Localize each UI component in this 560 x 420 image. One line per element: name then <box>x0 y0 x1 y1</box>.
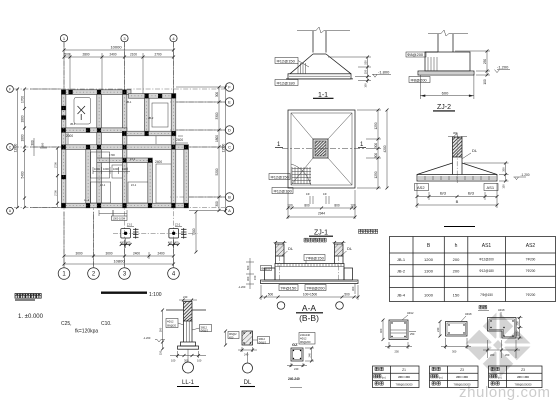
svg-text:7Φ8@200: 7Φ8@200 <box>306 285 325 290</box>
svg-text:1000: 1000 <box>103 167 109 171</box>
svg-text:Z3: Z3 <box>460 368 464 372</box>
grid row F centerline <box>14 88 225 90</box>
svg-text:150: 150 <box>502 184 506 189</box>
svg-text:JB-2: JB-2 <box>397 268 406 273</box>
column hatched stem <box>453 137 463 157</box>
wall strip top-right horizontal <box>129 94 176 99</box>
svg-text:240: 240 <box>307 353 311 358</box>
svg-text:(m): (m) <box>439 375 443 379</box>
svg-text:-1.200: -1.200 <box>521 173 530 177</box>
svg-text:JB-1: JB-1 <box>70 122 76 126</box>
wall strip row130 left horizontal <box>61 128 127 133</box>
svg-text:3000: 3000 <box>105 252 112 256</box>
grid row A centerline <box>14 207 225 209</box>
svg-text:ZJ-1: ZJ-1 <box>314 229 328 236</box>
svg-text:1000: 1000 <box>113 167 119 171</box>
svg-text:zhulong.com: zhulong.com <box>459 384 551 401</box>
svg-text:2400: 2400 <box>155 160 162 164</box>
room top-right inner <box>152 103 168 127</box>
svg-text:E: E <box>228 100 231 105</box>
svg-text:4Φ12: 4Φ12 <box>300 337 307 341</box>
bottom dims <box>487 340 489 358</box>
svg-text:4Φ12: 4Φ12 <box>407 311 414 315</box>
svg-text:3000: 3000 <box>75 252 82 256</box>
svg-text:7Φ200: 7Φ200 <box>526 293 536 297</box>
scale bar <box>101 292 147 294</box>
svg-text:2700: 2700 <box>54 162 58 168</box>
svg-text:Φ6@2: Φ6@2 <box>259 340 267 344</box>
svg-text:200: 200 <box>490 353 495 357</box>
square section <box>291 348 303 361</box>
svg-text:Φ8@20: Φ8@20 <box>261 267 271 271</box>
svg-text:1:100: 1:100 <box>149 292 162 298</box>
beam body <box>275 264 344 281</box>
svg-text:1000: 1000 <box>94 167 100 171</box>
grid bubble A left <box>7 207 14 214</box>
rebar label bottom <box>409 77 430 83</box>
svg-text:ZJ-1: ZJ-1 <box>100 183 106 187</box>
svg-text:Φ12@150: Φ12@150 <box>271 174 290 179</box>
svg-text:100: 100 <box>197 359 202 363</box>
svg-text:7Φ8@150: 7Φ8@150 <box>306 255 325 260</box>
svg-text:2000: 2000 <box>66 134 73 138</box>
break mark top <box>448 134 467 140</box>
bottom rebar hook marks <box>310 196 329 204</box>
bottom dim line <box>260 285 262 300</box>
grid line 2 vertical centerline (bottom only) <box>93 205 95 268</box>
svg-text:240 × 240: 240 × 240 <box>398 375 410 379</box>
AS2 boxed label left <box>415 184 429 191</box>
svg-text:11500: 11500 <box>222 143 226 152</box>
svg-text:DL: DL <box>244 380 252 386</box>
slab <box>261 280 359 284</box>
svg-text:2800: 2800 <box>82 53 89 57</box>
svg-text:2700: 2700 <box>154 53 161 57</box>
svg-text:ZJ-1: ZJ-1 <box>131 183 137 187</box>
svg-text:550: 550 <box>364 60 368 65</box>
grid bubble E right <box>225 98 233 106</box>
room bottom-mid inner <box>128 182 148 203</box>
svg-text:Φ8@200: Φ8@200 <box>407 52 424 57</box>
svg-text:1800: 1800 <box>215 135 219 142</box>
bottom boxed labels <box>279 285 298 291</box>
left dimension line 11000 <box>17 89 19 208</box>
small text under table <box>479 305 487 309</box>
internal dimension lines <box>68 133 188 216</box>
column lower <box>183 321 185 342</box>
axis circles <box>277 302 285 310</box>
small 300 dims left <box>33 138 35 156</box>
inner dim line near left wall <box>57 148 59 207</box>
svg-text:800: 800 <box>334 204 340 208</box>
isolated footing ZJ-2 left below plan <box>120 223 139 249</box>
svg-text:300: 300 <box>215 201 219 207</box>
inner square <box>291 113 352 185</box>
outer square <box>288 110 355 188</box>
bottom dims of ZJ-1 <box>287 190 289 219</box>
base slab <box>417 175 497 182</box>
grid row C centerline <box>14 146 225 148</box>
svg-text:200: 200 <box>453 268 460 273</box>
break line top <box>428 30 468 36</box>
grid bubble C right <box>225 143 233 151</box>
plan title <box>15 294 41 299</box>
svg-text:300: 300 <box>374 143 378 149</box>
svg-text:300: 300 <box>246 276 250 281</box>
svg-text:240: 240 <box>244 353 249 357</box>
left dim <box>439 322 441 337</box>
wall strip x150 bottom vertical <box>148 160 153 208</box>
svg-text:1000 1000: 1000 1000 <box>113 217 126 221</box>
svg-text:200: 200 <box>505 353 510 357</box>
grid row E centerline <box>170 101 225 103</box>
svg-text:400: 400 <box>174 240 179 244</box>
wall stem <box>312 31 314 53</box>
title underline segment <box>444 226 475 228</box>
vertical dim 7500 below row A right <box>192 211 198 254</box>
svg-text:2700: 2700 <box>54 190 58 196</box>
wall strip grid1 vertical <box>61 90 66 208</box>
svg-text:C: C <box>228 145 231 150</box>
svg-text:450: 450 <box>229 335 234 339</box>
svg-text:GZ: GZ <box>292 342 298 347</box>
left boxed label <box>166 319 178 328</box>
svg-text:100: 100 <box>350 204 356 208</box>
svg-text:1Φ: 1Φ <box>323 192 327 196</box>
footing slopes <box>290 54 313 74</box>
dashed wall lines inside <box>279 256 281 280</box>
svg-text:LL-1: LL-1 <box>182 380 195 386</box>
mesh rebar corner bottom-left <box>291 164 311 185</box>
svg-text:LL-1: LL-1 <box>84 198 90 202</box>
AS1 boxed label right <box>484 184 498 191</box>
base slab <box>288 74 351 79</box>
svg-text:240-240: 240-240 <box>288 377 300 381</box>
left rebar labels <box>269 174 290 180</box>
rebar label top <box>406 52 426 57</box>
column squares <box>62 90 188 208</box>
svg-text:F: F <box>9 87 11 91</box>
right dim ladder <box>367 57 369 83</box>
right dim <box>311 348 313 361</box>
grid line 4 vertical centerline <box>173 42 175 268</box>
svg-text:(B-B): (B-B) <box>299 313 319 323</box>
svg-text:DL: DL <box>288 246 294 251</box>
svg-text:1000: 1000 <box>122 167 128 171</box>
svg-text:10800: 10800 <box>113 259 125 264</box>
svg-text:7Φ200: 7Φ200 <box>526 257 536 261</box>
footing block <box>425 52 470 71</box>
svg-text:500: 500 <box>344 293 350 297</box>
svg-text:Φ12@100: Φ12@100 <box>274 188 293 193</box>
footing slopes <box>417 163 453 175</box>
room mid inner <box>112 165 122 178</box>
grid bubble F left <box>7 86 14 93</box>
room top-left inner <box>74 98 91 125</box>
svg-text:ZJ-2: ZJ-2 <box>127 223 133 227</box>
axis circle <box>183 362 194 373</box>
svg-text:DL: DL <box>472 148 478 153</box>
svg-text:200: 200 <box>453 257 460 262</box>
top dim ticks <box>179 299 197 301</box>
stirrup ticks on beam top <box>278 264 341 267</box>
right dims <box>519 318 521 339</box>
svg-text:300: 300 <box>502 167 506 172</box>
svg-text:2400: 2400 <box>109 53 116 57</box>
svg-text:1Φ: 1Φ <box>306 192 310 196</box>
svg-text:7Φ8@100/200: 7Φ8@100/200 <box>396 382 414 386</box>
svg-text:AS2: AS2 <box>526 243 536 249</box>
svg-text:fk=120kpa: fk=120kpa <box>75 329 98 335</box>
svg-text:300: 300 <box>374 153 378 159</box>
wall strip grid2 vertical <box>97 90 102 208</box>
footing axis dash-dot row <box>113 232 198 234</box>
svg-text:Φ12@180: Φ12@180 <box>479 269 494 273</box>
left dim 400 <box>382 320 384 340</box>
svg-text:ZJ-2: ZJ-2 <box>175 223 181 227</box>
wall strip x186 right vertical <box>184 145 189 208</box>
grid bubble 4 top <box>170 35 177 42</box>
svg-text:1700: 1700 <box>109 153 115 157</box>
grid bubble A right <box>225 206 233 214</box>
svg-text:1800: 1800 <box>20 115 24 122</box>
grid bubble 3 top <box>121 35 128 42</box>
left hatched wall column <box>276 244 285 256</box>
column lower part <box>452 157 454 175</box>
svg-text:Φ8@200: Φ8@200 <box>411 77 428 82</box>
svg-text:300: 300 <box>452 350 457 354</box>
svg-text:B: B <box>456 199 459 204</box>
svg-text:DL: DL <box>347 246 353 251</box>
svg-text:1250: 1250 <box>374 171 378 178</box>
left small boxed label <box>261 266 272 271</box>
svg-text:Z3: Z3 <box>521 368 525 372</box>
stair X symbol top-left room <box>78 106 86 120</box>
right small dim ladder <box>505 163 507 181</box>
svg-text:5400: 5400 <box>20 171 24 178</box>
wall strip row133 right horizontal <box>122 131 176 136</box>
wall strip x88 lower vertical <box>86 145 91 208</box>
svg-text:Φ12@200: Φ12@200 <box>479 257 494 261</box>
zhulong pinwheel logo <box>464 311 532 379</box>
svg-text:240x240: 240x240 <box>300 333 311 337</box>
svg-text:7Φ8@100/200: 7Φ8@100/200 <box>515 382 533 386</box>
svg-text:(m): (m) <box>382 375 386 379</box>
svg-text:150: 150 <box>453 293 460 298</box>
svg-text:250: 250 <box>364 69 368 74</box>
svg-text:Φ6@200: Φ6@200 <box>300 340 311 344</box>
svg-text:A: A <box>228 208 231 213</box>
svg-text:150: 150 <box>253 275 257 280</box>
right vert dim <box>354 284 356 295</box>
wall strip grid3 vertical <box>122 90 127 208</box>
wall strip rowA bottom horizontal <box>61 203 188 208</box>
svg-text:-1.800: -1.800 <box>378 70 390 75</box>
svg-text:h: h <box>455 243 458 249</box>
small elevation ladder right of bottom circles <box>238 258 257 289</box>
left dim + boxed label <box>228 332 239 339</box>
svg-text:300: 300 <box>41 142 45 147</box>
svg-text:240 × 240: 240 × 240 <box>456 375 468 379</box>
room right inner <box>156 164 171 203</box>
svg-text:A-A: A-A <box>302 303 317 313</box>
right boxed label <box>200 325 212 332</box>
bottom dims B/3 <box>416 183 418 208</box>
svg-text:2100: 2100 <box>130 53 137 57</box>
svg-text:240: 240 <box>183 295 188 299</box>
inner room outlines <box>74 98 171 204</box>
grid bubble B right <box>225 193 233 201</box>
pyramid diagonals <box>291 113 313 139</box>
wall strip grid4 vertical <box>171 94 176 208</box>
bottom dimension lines <box>64 255 174 257</box>
svg-text:4Φ18: 4Φ18 <box>498 308 505 312</box>
svg-text:4Φ12: 4Φ12 <box>167 320 174 324</box>
right hatched wall column <box>335 244 344 256</box>
svg-text:7Φ8@100/200: 7Φ8@100/200 <box>454 382 472 386</box>
svg-text:100×1500: 100×1500 <box>303 293 317 297</box>
svg-text:Φ12@150: Φ12@150 <box>277 58 296 63</box>
svg-text:AS1: AS1 <box>482 243 492 249</box>
svg-text:300: 300 <box>351 286 355 291</box>
ground line <box>166 309 206 311</box>
room mid-left inner <box>91 152 110 178</box>
rebar verticals <box>428 57 437 71</box>
svg-text:150: 150 <box>159 350 163 355</box>
wall strip row160 horizontal <box>97 158 153 163</box>
bottom dim <box>241 347 243 352</box>
svg-text:400: 400 <box>379 328 383 333</box>
walls of plan <box>61 90 188 208</box>
svg-text:500: 500 <box>159 327 163 332</box>
strip center dotted texture <box>64 92 188 205</box>
svg-text:250: 250 <box>410 332 415 336</box>
grid bubble C left <box>7 144 14 151</box>
right boxed label <box>258 337 270 344</box>
svg-text:1. ±0.000: 1. ±0.000 <box>18 314 44 320</box>
svg-text:ZJ-2: ZJ-2 <box>437 104 451 111</box>
column section <box>242 331 253 345</box>
svg-text:11000: 11000 <box>13 143 17 152</box>
right dimension line 11500 <box>218 87 220 211</box>
dim ticks top <box>63 49 176 59</box>
svg-text:250: 250 <box>395 350 400 354</box>
svg-text:250: 250 <box>516 321 520 326</box>
section line 1 horizontal <box>282 148 366 150</box>
svg-text:100: 100 <box>364 83 368 88</box>
top dim ticks above columns <box>274 242 287 244</box>
svg-text:(m): (m) <box>498 375 502 379</box>
rebar label boxed 12@150 <box>275 58 298 64</box>
svg-text:JB-4: JB-4 <box>397 293 406 298</box>
beam end steps <box>265 268 276 280</box>
svg-text:C10.: C10. <box>101 321 112 327</box>
svg-text:1000: 1000 <box>424 293 434 298</box>
svg-text:7500: 7500 <box>192 228 196 235</box>
grid row B centerline <box>170 196 225 198</box>
grid line 3 vertical centerline <box>124 42 126 268</box>
label 基础详图 <box>359 229 378 233</box>
svg-text:B: B <box>228 195 231 200</box>
svg-text:250: 250 <box>483 59 487 65</box>
svg-text:250: 250 <box>516 331 520 336</box>
svg-text:4Φ18: 4Φ18 <box>465 312 472 316</box>
svg-text:2400: 2400 <box>176 138 183 142</box>
center column hatched <box>313 139 328 158</box>
svg-text:500: 500 <box>268 293 274 297</box>
svg-text:Φ6@20: Φ6@20 <box>167 324 177 328</box>
rebar verticals <box>298 63 306 74</box>
svg-text:AS1: AS1 <box>487 185 495 190</box>
svg-text:240: 240 <box>436 327 440 332</box>
svg-text:Z1: Z1 <box>402 368 406 372</box>
svg-text:1250: 1250 <box>374 122 378 129</box>
svg-text:300: 300 <box>215 92 219 98</box>
svg-text:1200: 1200 <box>424 257 434 262</box>
bottom dims <box>177 351 179 358</box>
svg-text:D: D <box>228 128 231 133</box>
svg-text:Φ12@180: Φ12@180 <box>277 80 296 85</box>
base slab <box>418 71 474 75</box>
svg-text:500: 500 <box>64 53 70 57</box>
wall strip x146 top vertical <box>144 94 149 136</box>
wall strip rowC horizontal <box>61 145 188 150</box>
bottom dim 250 <box>388 342 390 349</box>
bottom dim <box>290 363 292 367</box>
boxed rebar label center top <box>304 255 325 261</box>
grid bubble 1 top <box>60 35 67 42</box>
svg-text:-1.200: -1.200 <box>143 336 151 340</box>
grid bubble 2 bottom <box>88 268 100 280</box>
svg-text:4200: 4200 <box>383 145 387 152</box>
svg-text:ZJ-1: ZJ-1 <box>130 157 136 161</box>
right dims of ZJ-1 <box>357 109 381 111</box>
svg-text:800: 800 <box>304 204 310 208</box>
grid bubble 3 bottom <box>119 268 131 280</box>
svg-text:7Φ@150: 7Φ@150 <box>280 285 297 290</box>
svg-text:2944: 2944 <box>318 212 325 216</box>
grid bubble D right <box>225 126 233 134</box>
svg-text:100: 100 <box>287 204 293 208</box>
grid bubble F right <box>225 83 233 91</box>
wall strip top-left horizontal <box>61 90 131 95</box>
svg-text:-1.200: -1.200 <box>497 65 509 70</box>
svg-text:B/3: B/3 <box>468 191 475 196</box>
bottom dim 600 <box>419 75 421 99</box>
svg-text:JB-1: JB-1 <box>126 100 132 104</box>
svg-text:Φ6@2: Φ6@2 <box>201 329 209 333</box>
svg-text:JB-1: JB-1 <box>397 257 406 262</box>
svg-text:600: 600 <box>246 265 250 270</box>
svg-text:400: 400 <box>120 240 125 244</box>
bottom dim 300 <box>445 338 447 349</box>
svg-text:300: 300 <box>30 140 34 146</box>
grid bubble 4 bottom <box>168 268 180 280</box>
wall lines under columns <box>275 256 277 264</box>
svg-text:240: 240 <box>294 367 299 371</box>
svg-text:JB-2: JB-2 <box>148 116 154 120</box>
svg-text:1300: 1300 <box>424 268 434 273</box>
svg-text:7Φ@150: 7Φ@150 <box>480 293 493 297</box>
svg-text:C25,: C25, <box>61 321 72 327</box>
svg-text:400: 400 <box>168 240 173 244</box>
grid bubble 1 bottom <box>58 268 70 280</box>
break line top <box>297 27 350 33</box>
short rebar ticks in slab <box>425 176 489 180</box>
svg-text:7Φ200: 7Φ200 <box>526 269 536 273</box>
svg-text:5200: 5200 <box>215 168 219 175</box>
right dim ladder <box>486 51 488 75</box>
